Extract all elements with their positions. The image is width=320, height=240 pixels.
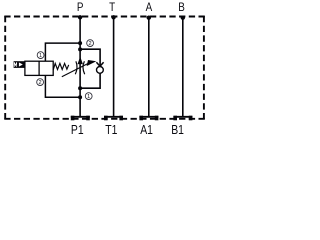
pin 1 cartridge bottom (85, 93, 92, 100)
node T (111, 15, 115, 19)
port marker A1 (139, 116, 158, 121)
port marker T1 (104, 116, 123, 121)
node junction P loop top (78, 47, 82, 51)
throttle arcs (75, 61, 77, 74)
pin 1 valve top (37, 52, 44, 59)
wire valve bottom branch (45, 75, 80, 97)
solenoid actuator (14, 61, 25, 68)
wire valve top branch (45, 43, 80, 61)
port marker P1 (71, 116, 90, 121)
spring return (53, 63, 68, 70)
flow arrow up on P line (78, 57, 83, 65)
wire A line (148, 17, 150, 117)
node junction P loop bottom (78, 86, 82, 90)
node A (147, 16, 151, 20)
node junction P bottom-left (78, 95, 82, 99)
port marker B1 (173, 116, 192, 121)
pin 2 valve bottom (37, 79, 44, 86)
svg-text:A1: A1 (140, 123, 153, 137)
wire P line (79, 17, 81, 117)
node P (78, 15, 82, 19)
adjustment arrow diagonal (62, 63, 89, 77)
valve V1 position boxes (25, 61, 53, 75)
svg-text:T: T (109, 1, 115, 14)
dashed manifold enclosure (4, 16, 205, 119)
wire T line (113, 17, 115, 117)
svg-text:2: 2 (39, 80, 42, 86)
svg-text:1: 1 (87, 94, 90, 100)
svg-text:A: A (146, 1, 153, 14)
svg-text:P: P (77, 1, 84, 14)
wire check bypass loop (80, 49, 100, 88)
node junction P top-left (78, 41, 82, 45)
wire B line (182, 17, 184, 117)
svg-text:2: 2 (89, 41, 92, 47)
svg-text:1: 1 (39, 53, 42, 59)
node B (181, 16, 185, 20)
svg-text:B: B (178, 1, 185, 14)
svg-text:B1: B1 (171, 123, 184, 137)
check valve ball (97, 67, 104, 74)
svg-text:T1: T1 (105, 123, 117, 137)
check valve seat (96, 62, 103, 66)
svg-text:P1: P1 (71, 123, 84, 137)
pin 2 cartridge top (87, 40, 94, 47)
